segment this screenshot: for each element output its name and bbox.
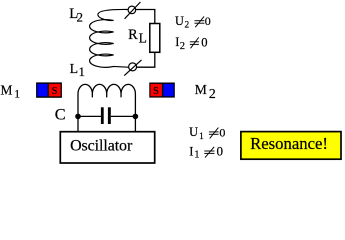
svg-text:L: L (70, 61, 78, 76)
oscillator box (60, 132, 154, 163)
resonance callout box (241, 132, 341, 160)
svg-text:2: 2 (180, 41, 185, 52)
svg-text:R: R (128, 27, 138, 43)
svg-text:2: 2 (77, 10, 84, 25)
svg-text:2: 2 (209, 86, 216, 101)
svg-text:C: C (55, 105, 66, 124)
svg-text:0: 0 (219, 125, 225, 139)
svg-text:1: 1 (199, 132, 204, 142)
svg-text:1: 1 (14, 89, 20, 101)
svg-text:S: S (52, 86, 58, 97)
svg-text:0: 0 (217, 144, 224, 159)
capacitor right plate (108, 107, 111, 124)
svg-text:U: U (175, 14, 184, 28)
wire: capacitor to right node (111, 115, 136, 117)
svg-text:Oscillator: Oscillator (70, 138, 133, 155)
svg-text:0: 0 (205, 14, 211, 28)
magnet M2 (red S | blue) (149, 83, 175, 98)
svg-text:0: 0 (201, 35, 207, 49)
svg-text:2: 2 (185, 21, 190, 31)
wire: left node to capacitor (78, 115, 101, 117)
inductor L2 (secondary coil) (90, 9, 129, 67)
svg-text:M: M (1, 82, 13, 97)
wire top: terminal to RL corner (136, 10, 155, 24)
magnet M1 (blue | red S) (36, 82, 62, 97)
wire: right node down to oscillator (134, 116, 136, 131)
svg-text:1: 1 (194, 149, 199, 160)
wire bottom: RL to terminal (137, 52, 155, 67)
svg-text:M: M (195, 82, 207, 97)
terminal bottom (circle with slash) (129, 63, 137, 71)
resistor RL (150, 24, 160, 53)
inductor L1 (primary coil) with legs (78, 84, 135, 116)
svg-text:1: 1 (79, 65, 85, 79)
wire: left node down to oscillator (77, 116, 79, 131)
svg-text:L: L (139, 31, 147, 46)
terminal top (circle with slash) (128, 6, 136, 14)
capacitor left plate (101, 107, 104, 124)
svg-text:I: I (175, 35, 179, 49)
node junction left (75, 114, 81, 120)
svg-text:S: S (153, 86, 159, 97)
node junction right (133, 114, 139, 120)
svg-text:I: I (189, 144, 193, 158)
svg-text:U: U (189, 125, 198, 139)
svg-text:Resonance!: Resonance! (250, 134, 328, 153)
